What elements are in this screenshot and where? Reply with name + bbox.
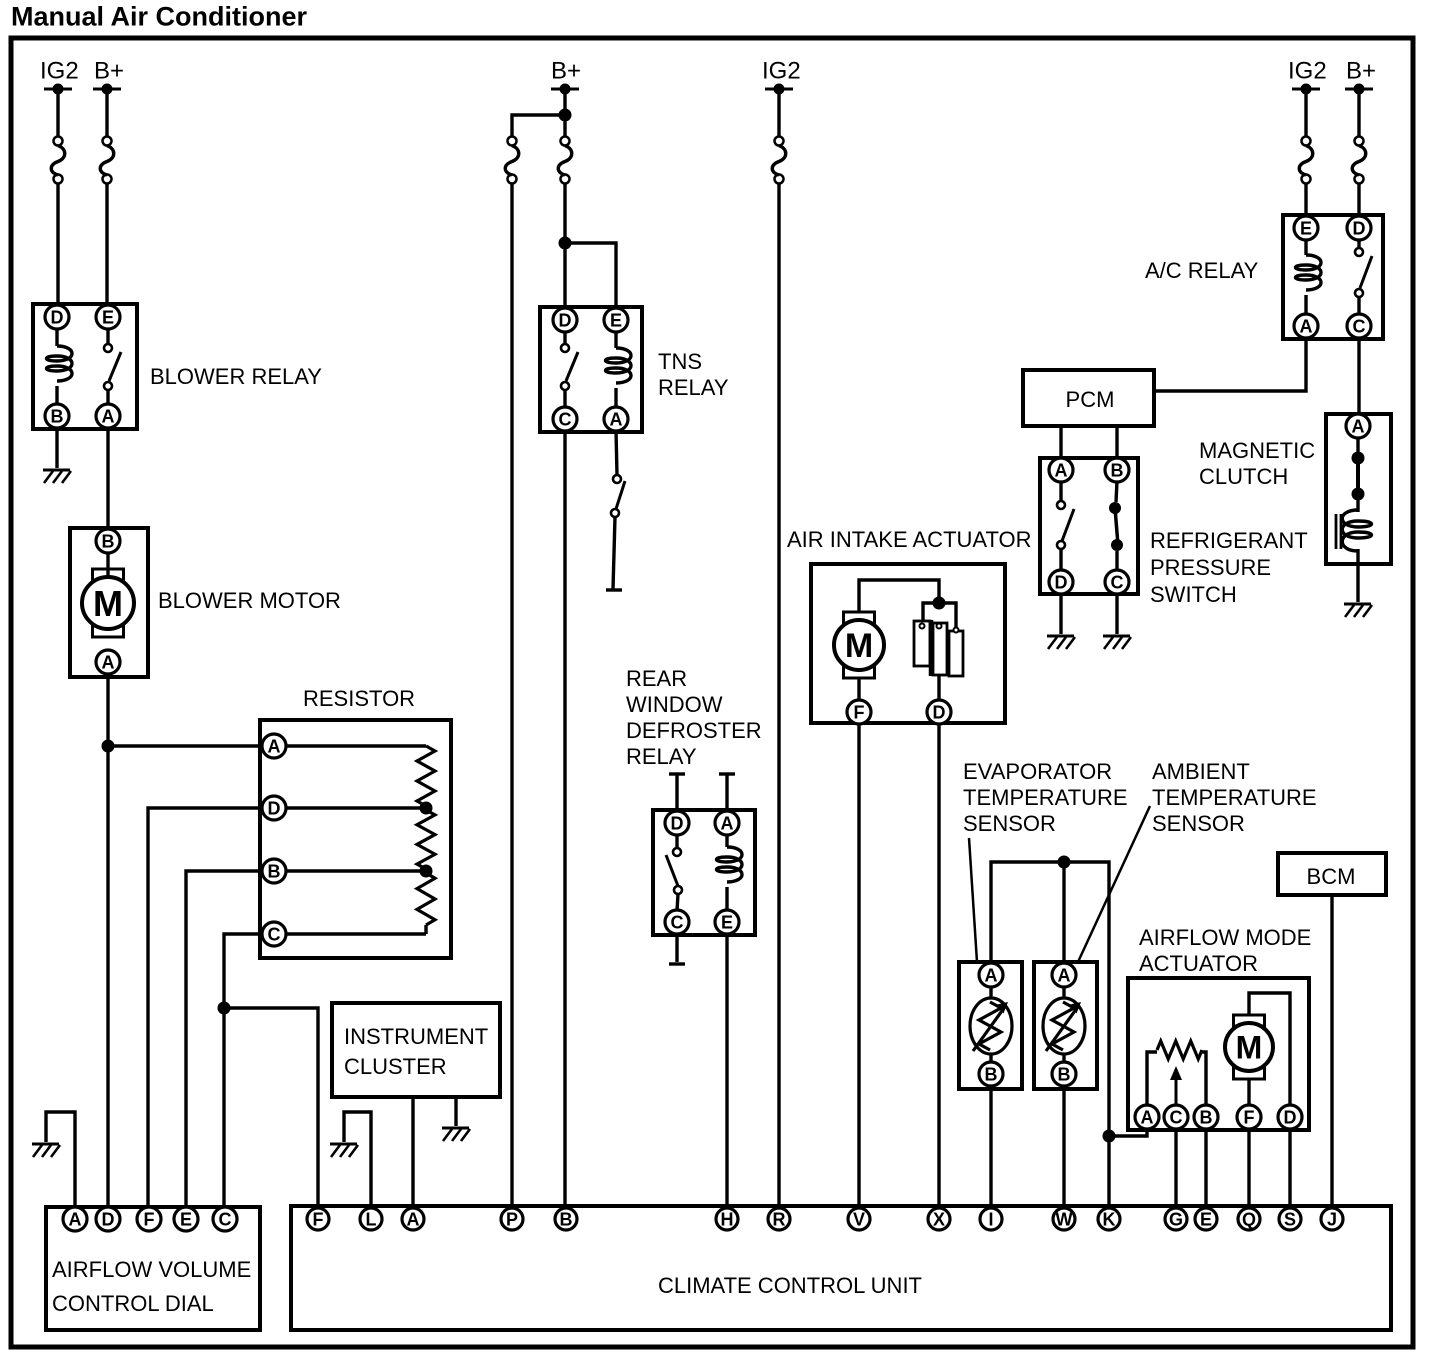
ambient thermistor <box>1043 986 1085 1063</box>
wire ambient B to climate W <box>1062 1088 1065 1209</box>
fuse (B+ left) <box>100 137 114 184</box>
dial pin C <box>213 1207 237 1231</box>
dial pin E <box>174 1207 198 1231</box>
air intake pot contacts <box>920 624 959 633</box>
svg-text:EVAPORATOR: EVAPORATOR <box>963 759 1112 784</box>
resistor wire C row <box>286 932 426 935</box>
svg-text:E: E <box>610 310 622 330</box>
defroster relay pin D <box>665 811 689 835</box>
climate control unit pin K <box>1098 1208 1120 1230</box>
svg-text:INSTRUMENT: INSTRUMENT <box>344 1024 488 1049</box>
air intake pot bar <box>929 620 934 676</box>
resistor pin B <box>262 859 286 883</box>
svg-text:C: C <box>268 924 281 944</box>
climate control unit pin F <box>307 1208 329 1230</box>
label TNS RELAY <box>658 349 729 400</box>
svg-text:J: J <box>1327 1209 1337 1229</box>
svg-text:RELAY: RELAY <box>658 375 729 400</box>
blower relay box <box>33 304 137 429</box>
svg-text:B+: B+ <box>94 58 124 85</box>
fuse (A/C relay contact) <box>1352 137 1366 184</box>
wire instrument cluster to climate A <box>411 1097 414 1209</box>
svg-text:C: C <box>559 409 572 429</box>
wire to actuator A <box>1109 1130 1147 1136</box>
label BLOWER RELAY <box>150 364 322 389</box>
svg-text:W: W <box>1056 1209 1073 1229</box>
wire instrument cluster to ground <box>454 1097 457 1126</box>
leader (evaporator label) <box>969 838 977 962</box>
node B+ (top left) <box>93 58 124 95</box>
TNS relay switch <box>561 331 578 408</box>
rear window defroster relay box <box>653 810 755 935</box>
actuator pot element <box>1157 1041 1202 1059</box>
TNS relay pin A <box>604 407 628 431</box>
resistor pin C <box>262 922 286 946</box>
actuator pot left wire <box>1147 1052 1157 1108</box>
wire sensors feed <box>991 862 1109 1209</box>
svg-text:M: M <box>845 627 873 665</box>
defroster relay stub A <box>719 774 735 812</box>
wire fuse to climate P <box>510 183 513 1209</box>
defroster relay stub D <box>669 774 685 812</box>
svg-text:A: A <box>407 1209 420 1229</box>
ground (pressure switch C) <box>1103 636 1131 649</box>
actuator pot wiper arrow <box>1170 1066 1182 1108</box>
air intake pot right wire <box>945 603 956 630</box>
climate control unit pin L <box>360 1208 382 1230</box>
A/C relay box <box>1283 215 1383 339</box>
pressure switch pin D <box>1049 570 1073 594</box>
label EVAPORATOR TEMPERATURE SENSOR <box>963 759 1128 836</box>
evaporator pin A <box>979 963 1003 987</box>
wire evaporator B to climate I <box>989 1088 992 1209</box>
airflow mode actuator box <box>1128 978 1309 1130</box>
climate control unit pin I <box>980 1208 1002 1230</box>
defroster relay stub C <box>669 933 685 964</box>
svg-text:D: D <box>102 1209 115 1229</box>
wire ambient A drop <box>1062 862 1065 962</box>
wire branch to P fuse <box>512 115 565 137</box>
svg-text:C: C <box>219 1209 232 1229</box>
junction (ambient A tap) <box>1058 856 1071 869</box>
svg-text:WINDOW: WINDOW <box>626 692 723 717</box>
svg-text:B: B <box>268 861 281 881</box>
blower relay coil <box>47 328 73 405</box>
svg-text:A: A <box>1352 416 1365 436</box>
defroster relay switch <box>666 834 682 911</box>
refrigerant pressure switch box <box>1040 458 1138 594</box>
wire junction to resistor A <box>114 744 264 747</box>
wire A/C relay C to magnetic clutch <box>1357 338 1360 416</box>
svg-text:IG2: IG2 <box>1288 58 1327 85</box>
pressure switch pin B <box>1105 458 1129 482</box>
magnetic clutch contact <box>1352 438 1365 512</box>
actuator motor wire to D <box>1249 993 1290 1108</box>
wire branch to TNS E <box>565 243 616 308</box>
svg-text:F: F <box>144 1209 155 1229</box>
svg-text:CONTROL DIAL: CONTROL DIAL <box>52 1291 214 1316</box>
magnetic clutch coil <box>1342 510 1371 551</box>
svg-text:ACTUATOR: ACTUATOR <box>1139 951 1258 976</box>
svg-text:PCM: PCM <box>1066 387 1115 412</box>
climate control unit pin R <box>768 1208 790 1230</box>
actuator pot right wire <box>1200 1052 1206 1108</box>
svg-text:M: M <box>1236 1030 1263 1066</box>
ground (instrument cluster) <box>442 1128 470 1141</box>
svg-text:A: A <box>985 965 998 985</box>
label REAR WINDOW DEFROSTER RELAY <box>626 666 762 769</box>
magnetic clutch pin A <box>1346 414 1370 438</box>
svg-text:B: B <box>1111 460 1124 480</box>
svg-text:C: C <box>1111 572 1124 592</box>
svg-text:V: V <box>853 1209 865 1229</box>
wire blower relay B to ground <box>55 427 58 468</box>
svg-text:C: C <box>671 912 684 932</box>
label PCM <box>1066 387 1115 412</box>
evaporator thermistor <box>970 986 1012 1063</box>
label CLIMATE CONTROL UNIT <box>658 1273 922 1298</box>
svg-text:D: D <box>268 798 281 818</box>
A/C relay switch <box>1355 239 1372 315</box>
wire fuse to blower relay D <box>56 183 59 308</box>
label REFRIGERANT PRESSURE SWITCH <box>1150 528 1308 607</box>
TNS relay pin E <box>604 308 628 332</box>
resistor element 1 <box>417 746 435 806</box>
defroster relay pin A <box>715 811 739 835</box>
air intake pot left wire <box>923 603 933 621</box>
svg-text:A: A <box>69 1209 82 1229</box>
junction (resistor C / climate F branch) <box>218 1002 231 1015</box>
ground (dial A) <box>32 1144 60 1157</box>
wire pressure switch C to ground <box>1115 594 1118 634</box>
climate control unit box <box>291 1206 1391 1330</box>
svg-text:A: A <box>610 409 623 429</box>
leader (ambient label) <box>1078 806 1150 962</box>
svg-text:B: B <box>1200 1107 1213 1127</box>
wire climate L to ground <box>344 1112 371 1209</box>
blower motor pin B <box>96 529 120 553</box>
svg-text:B: B <box>51 406 64 426</box>
fuse (IG2 center) <box>772 137 786 184</box>
wire fuse down to TNS D <box>563 183 566 308</box>
climate control unit pin G <box>1165 1208 1187 1230</box>
wire PCM to pressure switch B <box>1115 426 1118 460</box>
svg-text:AIRFLOW MODE: AIRFLOW MODE <box>1139 925 1311 950</box>
ground (magnetic clutch) <box>1344 604 1372 617</box>
svg-text:X: X <box>933 1209 945 1229</box>
svg-text:K: K <box>1103 1209 1116 1229</box>
resistor element 2 <box>417 810 435 869</box>
pressure switch open contact <box>1057 481 1074 571</box>
node B+ (top right) <box>1345 58 1376 95</box>
node IG2 (top center) <box>762 58 801 95</box>
resistor wire B row <box>286 869 426 872</box>
label AMBIENT TEMPERATURE SENSOR <box>1152 759 1317 836</box>
climate control unit pin S <box>1279 1208 1301 1230</box>
label MAGNETIC CLUTCH <box>1199 438 1315 489</box>
instrument cluster box <box>332 1003 500 1097</box>
svg-text:S: S <box>1284 1209 1296 1229</box>
label RESISTOR <box>303 686 415 711</box>
junction (resistor D tap) <box>420 802 433 815</box>
TNS relay coil <box>606 331 632 408</box>
label A/C RELAY <box>1145 258 1259 283</box>
wire fuse to blower relay E <box>105 183 108 308</box>
svg-text:A: A <box>1300 316 1313 336</box>
svg-text:A: A <box>1141 1107 1154 1127</box>
ambient pin A <box>1052 963 1076 987</box>
actuator pin D <box>1278 1105 1302 1129</box>
svg-text:B+: B+ <box>551 58 581 85</box>
air intake pot right plate <box>949 631 963 676</box>
actuator pin F <box>1237 1105 1261 1129</box>
svg-text:A: A <box>1055 460 1068 480</box>
wire TNS C to climate B <box>563 430 566 1209</box>
wire actuator F to climate Q <box>1247 1129 1250 1209</box>
resistor wire A row <box>286 744 426 747</box>
svg-text:I: I <box>988 1209 993 1229</box>
wire blower motor A down to dial D <box>106 673 109 1209</box>
resistor wire D row <box>286 806 426 809</box>
svg-text:D: D <box>559 310 572 330</box>
resistor element 3 <box>417 873 435 934</box>
svg-text:SWITCH: SWITCH <box>1150 582 1237 607</box>
svg-text:TNS: TNS <box>658 349 702 374</box>
junction (B+ center split) <box>559 109 572 122</box>
wire actuator C to climate G <box>1174 1129 1177 1209</box>
label BCM <box>1307 864 1356 889</box>
wire IG2 right to fuse <box>1304 93 1307 137</box>
svg-text:D: D <box>51 307 64 327</box>
junction (air intake pot) <box>933 597 946 610</box>
svg-text:G: G <box>1169 1209 1183 1229</box>
wire resistor B to dial E <box>186 871 263 1209</box>
svg-text:Q: Q <box>1242 1209 1256 1229</box>
blower relay pin A <box>96 404 120 428</box>
actuator pin B <box>1194 1105 1218 1129</box>
svg-text:A: A <box>721 813 734 833</box>
svg-text:E: E <box>721 912 733 932</box>
svg-text:D: D <box>671 813 684 833</box>
blower relay pin E <box>96 305 120 329</box>
blower relay switch <box>104 328 121 405</box>
PCM box <box>1023 370 1154 426</box>
svg-text:A: A <box>1058 965 1071 985</box>
evaporator pin B <box>979 1062 1003 1086</box>
svg-text:MAGNETIC: MAGNETIC <box>1199 438 1315 463</box>
svg-text:M: M <box>93 583 123 624</box>
air intake wire motor to F <box>857 678 860 701</box>
blower relay pin B <box>45 404 69 428</box>
svg-text:D: D <box>1055 572 1068 592</box>
svg-text:IG2: IG2 <box>762 58 801 85</box>
wire dial A to ground <box>46 1112 75 1208</box>
wire defroster E to climate H <box>725 933 728 1209</box>
climate control unit pin B <box>555 1208 577 1230</box>
resistor pin A <box>262 734 286 758</box>
wire air intake F to climate V <box>857 723 860 1209</box>
svg-text:D: D <box>1353 218 1366 238</box>
wire PCM to A/C relay A <box>1154 338 1306 391</box>
wire fuse to climate R <box>777 183 780 1209</box>
svg-text:F: F <box>1244 1107 1255 1127</box>
wire IG2-left to fuse <box>56 93 59 137</box>
airflow volume control dial box <box>46 1207 260 1330</box>
junction (K wire to actuator A) <box>1103 1130 1116 1143</box>
wire resistor D to dial F <box>148 808 263 1209</box>
svg-text:C: C <box>1170 1107 1183 1127</box>
TNS relay box <box>540 307 642 432</box>
svg-text:REAR: REAR <box>626 666 687 691</box>
svg-text:C: C <box>1353 316 1366 336</box>
wire B+ center to junction <box>563 93 566 115</box>
pressure switch pin A <box>1049 458 1073 482</box>
svg-text:AIRFLOW VOLUME: AIRFLOW VOLUME <box>52 1257 251 1282</box>
climate control unit pin J <box>1321 1208 1343 1230</box>
label AIR INTAKE ACTUATOR <box>787 527 1031 552</box>
wire PCM to pressure switch A <box>1059 426 1062 460</box>
air intake actuator box <box>811 564 1005 723</box>
magnetic clutch coil core <box>1336 514 1341 549</box>
air intake motor M <box>834 612 884 678</box>
wire branch to climate F <box>224 1008 318 1209</box>
pressure switch closed contact <box>1109 481 1123 571</box>
climate control unit pin P <box>501 1208 523 1230</box>
svg-text:CLUSTER: CLUSTER <box>344 1054 447 1079</box>
blower motor box <box>70 528 148 677</box>
svg-text:IG2: IG2 <box>40 58 79 85</box>
junction (resistor B tap) <box>420 865 433 878</box>
wire B+-left to fuse <box>105 93 108 137</box>
wire B+ to TNS fuse <box>563 115 566 137</box>
defroster relay pin E <box>715 910 739 934</box>
svg-text:SENSOR: SENSOR <box>963 811 1056 836</box>
wire IG2 center to fuse <box>777 93 780 137</box>
resistor box <box>260 720 451 958</box>
TNS A switch to stub <box>606 430 625 590</box>
air intake pot left plate <box>914 621 930 666</box>
TNS relay pin D <box>553 308 577 332</box>
A/C relay pin D <box>1347 216 1371 240</box>
fuse (A/C relay coil) <box>1299 137 1313 184</box>
fuse (IG2 left) <box>51 137 65 184</box>
climate control unit pin Q <box>1238 1208 1260 1230</box>
svg-text:D: D <box>933 702 946 722</box>
svg-text:BLOWER MOTOR: BLOWER MOTOR <box>158 588 341 613</box>
svg-text:TEMPERATURE: TEMPERATURE <box>963 785 1128 810</box>
label BLOWER MOTOR <box>158 588 341 613</box>
blower motor M <box>82 552 134 637</box>
air intake pin D <box>927 700 951 724</box>
node B+ (top center) <box>551 58 581 95</box>
air intake motor wire <box>859 580 939 612</box>
A/C relay pin E <box>1294 216 1318 240</box>
defroster relay pin C <box>665 910 689 934</box>
wire resistor C down <box>224 934 263 1209</box>
svg-text:REFRIGERANT: REFRIGERANT <box>1150 528 1308 553</box>
A/C relay pin C <box>1347 314 1371 338</box>
actuator motor wire to F <box>1247 1079 1250 1108</box>
dial pin A <box>63 1207 87 1231</box>
wire B+ right to fuse <box>1357 93 1360 137</box>
blower motor pin A <box>96 650 120 674</box>
A/C relay pin A <box>1294 314 1318 338</box>
TNS relay pin C <box>553 407 577 431</box>
climate control unit pin A <box>402 1208 424 1230</box>
wire magnetic clutch to ground <box>1356 549 1359 602</box>
ground (climate L) <box>330 1144 358 1157</box>
wire fuse to AC relay E <box>1304 183 1307 217</box>
actuator pin C <box>1164 1105 1188 1129</box>
svg-text:PRESSURE: PRESSURE <box>1150 555 1271 580</box>
svg-text:D: D <box>1284 1107 1297 1127</box>
svg-text:A: A <box>102 406 115 426</box>
svg-text:E: E <box>1300 218 1312 238</box>
wire pressure switch D to ground <box>1059 594 1062 634</box>
svg-text:L: L <box>366 1209 377 1229</box>
svg-text:CLIMATE CONTROL UNIT: CLIMATE CONTROL UNIT <box>658 1273 922 1298</box>
svg-text:Manual Air Conditioner: Manual Air Conditioner <box>11 2 307 32</box>
climate control unit pin X <box>928 1208 950 1230</box>
actuator motor M <box>1225 1015 1273 1079</box>
svg-text:F: F <box>854 702 865 722</box>
dial pin D <box>96 1207 120 1231</box>
svg-text:TEMPERATURE: TEMPERATURE <box>1152 785 1317 810</box>
svg-text:R: R <box>773 1209 786 1229</box>
ground (blower relay) <box>43 470 71 483</box>
ground (pressure switch D) <box>1047 636 1075 649</box>
svg-text:B: B <box>560 1209 573 1229</box>
wire BCM to climate J <box>1330 895 1333 1209</box>
air intake pot middle plate <box>933 623 947 675</box>
ambient temperature sensor box <box>1034 962 1097 1089</box>
wire actuator B to climate E <box>1204 1129 1207 1209</box>
A/C relay coil <box>1296 239 1322 315</box>
node IG2 (top left) <box>40 58 79 95</box>
svg-text:B: B <box>102 531 115 551</box>
svg-text:A/C RELAY: A/C RELAY <box>1145 258 1259 283</box>
air intake pot to D <box>937 675 940 701</box>
fuse (TNS feed) <box>558 137 572 184</box>
svg-text:BCM: BCM <box>1307 864 1356 889</box>
node IG2 (top right) <box>1288 58 1327 95</box>
climate control unit pin H <box>716 1208 738 1230</box>
pressure switch pin C <box>1105 570 1129 594</box>
svg-text:AIR INTAKE ACTUATOR: AIR INTAKE ACTUATOR <box>787 527 1031 552</box>
label AIRFLOW VOLUME CONTROL DIAL <box>52 1257 251 1316</box>
svg-text:BLOWER RELAY: BLOWER RELAY <box>150 364 322 389</box>
svg-text:DEFROSTER: DEFROSTER <box>626 718 762 743</box>
dial pin F <box>137 1207 161 1231</box>
fuse (P feed) <box>505 137 519 184</box>
svg-text:RELAY: RELAY <box>626 744 697 769</box>
air intake pin F <box>847 700 871 724</box>
wire fuse to AC relay D <box>1357 183 1360 217</box>
actuator pin A <box>1135 1105 1159 1129</box>
svg-text:E: E <box>102 307 114 327</box>
label INSTRUMENT CLUSTER <box>344 1024 488 1079</box>
svg-text:B: B <box>1058 1064 1071 1084</box>
svg-text:P: P <box>506 1209 518 1229</box>
resistor pin D <box>262 796 286 820</box>
svg-text:SENSOR: SENSOR <box>1152 811 1245 836</box>
evaporator temperature sensor box <box>959 962 1022 1089</box>
wire blower relay A to blower motor B <box>106 427 109 530</box>
svg-text:E: E <box>180 1209 192 1229</box>
svg-text:AMBIENT: AMBIENT <box>1152 759 1250 784</box>
svg-text:H: H <box>721 1209 734 1229</box>
blower relay pin D <box>45 305 69 329</box>
